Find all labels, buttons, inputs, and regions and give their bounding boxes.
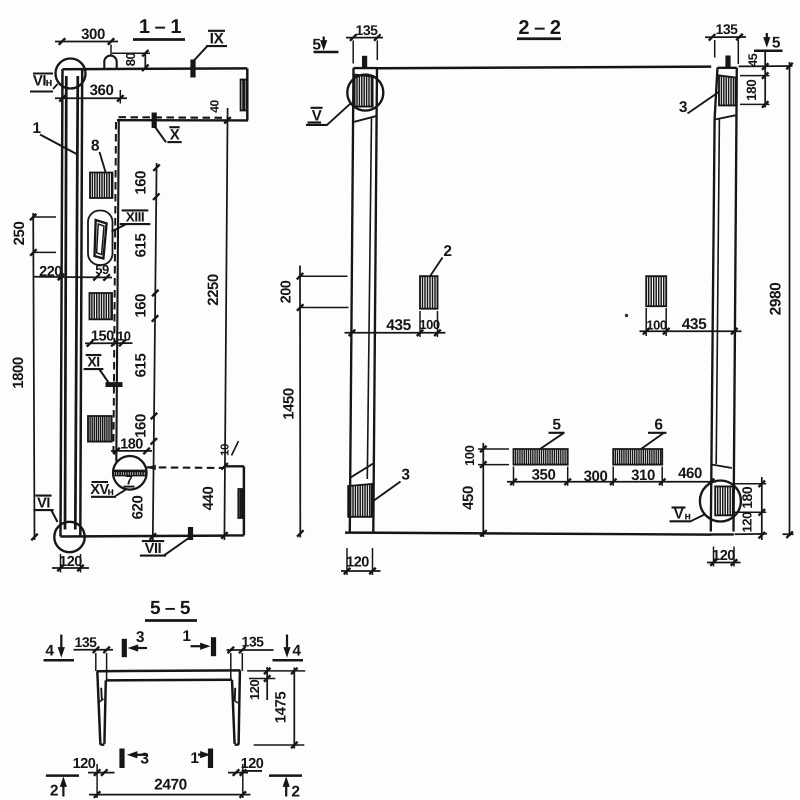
svg-text:120: 120: [739, 512, 754, 533]
svg-text:1800: 1800: [10, 357, 27, 389]
svg-text:V: V: [674, 507, 684, 523]
svg-text:450: 450: [460, 486, 477, 510]
svg-text:100: 100: [462, 445, 477, 466]
svg-text:120: 120: [73, 756, 96, 772]
svg-text:8: 8: [91, 138, 100, 155]
svg-text:5: 5: [312, 36, 321, 53]
svg-text:120: 120: [59, 554, 82, 570]
svg-text:7: 7: [126, 473, 133, 488]
svg-text:135: 135: [715, 21, 738, 37]
svg-text:160: 160: [133, 294, 150, 318]
svg-text:310: 310: [631, 467, 655, 484]
svg-text:615: 615: [132, 354, 149, 378]
svg-text:300: 300: [584, 468, 608, 485]
svg-text:620: 620: [130, 496, 147, 520]
svg-text:3: 3: [136, 629, 145, 646]
svg-text:5: 5: [772, 35, 781, 52]
svg-text:200: 200: [278, 280, 294, 303]
svg-text:2 – 2: 2 – 2: [518, 17, 561, 39]
svg-text:5 – 5: 5 – 5: [150, 598, 191, 619]
svg-text:2980: 2980: [768, 283, 785, 316]
svg-text:1450: 1450: [280, 388, 297, 420]
svg-text:XIII: XIII: [126, 210, 144, 225]
svg-text:н: н: [46, 77, 53, 89]
svg-text:X: X: [170, 127, 180, 144]
svg-text:IX: IX: [210, 31, 225, 48]
svg-text:135: 135: [74, 634, 97, 650]
svg-text:135: 135: [241, 633, 264, 649]
svg-text:120: 120: [241, 756, 264, 772]
svg-text:220: 220: [39, 264, 62, 280]
svg-text:1: 1: [182, 628, 191, 645]
svg-text:4: 4: [45, 643, 54, 660]
svg-text:440: 440: [200, 487, 217, 511]
svg-text:160: 160: [133, 171, 150, 195]
svg-text:5: 5: [552, 417, 561, 434]
svg-text:435: 435: [682, 316, 707, 333]
svg-text:350: 350: [532, 466, 556, 483]
svg-text:435: 435: [386, 317, 411, 334]
svg-text:10: 10: [117, 328, 131, 343]
svg-text:135: 135: [355, 22, 378, 38]
svg-text:1 – 1: 1 – 1: [139, 16, 182, 38]
svg-text:40: 40: [208, 100, 222, 113]
svg-text:3: 3: [679, 99, 688, 116]
svg-text:10: 10: [220, 444, 232, 456]
svg-text:180: 180: [739, 486, 755, 509]
svg-text:1475: 1475: [272, 692, 289, 724]
svg-text:2: 2: [50, 783, 58, 800]
svg-text:360: 360: [90, 82, 114, 99]
svg-text:59: 59: [95, 262, 109, 277]
svg-text:180: 180: [744, 80, 759, 101]
svg-text:4: 4: [292, 643, 301, 660]
svg-text:120: 120: [247, 680, 262, 701]
svg-text:120: 120: [712, 548, 735, 564]
svg-text:2: 2: [443, 243, 451, 260]
svg-text:3: 3: [401, 467, 410, 484]
svg-text:120: 120: [346, 555, 369, 571]
svg-text:3: 3: [140, 750, 149, 767]
svg-text:615: 615: [133, 234, 150, 258]
svg-text:2: 2: [291, 784, 299, 800]
svg-text:1: 1: [190, 750, 199, 767]
svg-text:460: 460: [678, 465, 702, 482]
svg-text:45: 45: [746, 53, 760, 67]
svg-text:2250: 2250: [205, 274, 222, 306]
svg-text:VI: VI: [33, 72, 47, 89]
svg-text:160: 160: [133, 414, 150, 438]
svg-text:150: 150: [91, 329, 114, 345]
svg-text:6: 6: [654, 417, 663, 434]
svg-text:300: 300: [81, 26, 105, 43]
svg-text:250: 250: [11, 222, 28, 246]
svg-text:100: 100: [646, 318, 667, 333]
svg-text:180: 180: [120, 436, 143, 452]
svg-text:80: 80: [123, 53, 138, 67]
svg-text:2470: 2470: [154, 776, 187, 793]
